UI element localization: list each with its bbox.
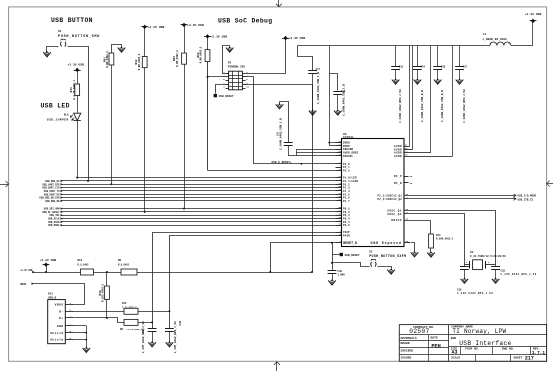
wire S4 right down to P1_1 bus	[68, 47, 89, 181]
wire +3.3V rail	[511, 45, 533, 47]
svg-text:X_32.768K/12.5/20/20/40: X_32.768K/12.5/20/20/40	[470, 254, 506, 258]
svg-text:C_47P_0402_NP0_J_50: C_47P_0402_NP0_J_50	[142, 321, 145, 353]
svg-text:RF_P: RF_P	[394, 175, 402, 178]
wire net PAIP / USB D+	[153, 233, 336, 329]
svg-text:C_33P_0402_NP0_J_50: C_33P_0402_NP0_J_50	[501, 273, 537, 276]
svg-text:USB_ITB_IS: USB_ITB_IS	[518, 198, 534, 201]
wire net USB_UART_CTS	[61, 186, 63, 188]
wire RESET to S3	[333, 263, 370, 267]
wire DGUARD stub	[296, 149, 335, 151]
svg-text:AVDD: AVDD	[394, 155, 402, 158]
svg-text:R_0_0402: R_0_0402	[78, 264, 90, 267]
svg-text:C_33P_0402_NP0_J_50: C_33P_0402_NP0_J_50	[457, 292, 493, 295]
wire P2 pin1 to ground bracket	[223, 46, 230, 74]
ground for GND Exposed pin	[411, 243, 415, 253]
svg-text:R9: R9	[120, 328, 124, 331]
ground under S4	[43, 52, 51, 57]
svg-text:DWG NO.: DWG NO.	[502, 348, 515, 351]
wire AVDD_DREG stub	[296, 152, 335, 154]
wire net USB_DBG_DC	[61, 180, 63, 182]
wire XOSC_Q1 to crystal	[405, 211, 496, 265]
wire R52 down to P0_1 bus	[184, 64, 186, 208]
svg-text:SHEET: SHEET	[513, 356, 522, 359]
svg-text:VBUS: VBUS	[55, 304, 64, 307]
svg-text:+3.3V USB: +3.3V USB	[187, 23, 204, 27]
svg-text:DWG: DWG	[451, 337, 457, 340]
capacitor C33 C_22NF_0402_NP0_J_50	[395, 46, 397, 67]
svg-text:R8: R8	[118, 259, 122, 262]
svg-text:A3: A3	[452, 349, 458, 355]
wire P2 pin3 to R50 column	[208, 76, 226, 78]
svg-text:P0_6: P0_6	[343, 224, 350, 227]
svg-text:D+: D+	[59, 317, 64, 320]
resistor R43 R_2.2K_0402_J	[75, 84, 80, 96]
U3 left pins group DVDD/DGUARD/AVDD_DREG/DCOUPL	[336, 142, 342, 144]
wire AVDD feed 1	[409, 46, 411, 147]
capacitor C34 C_100N_0402_X5R_K_B	[417, 46, 419, 67]
svg-text:R_1K5_0402_G: R_1K5_0402_G	[102, 284, 105, 303]
wire net USB_TDI	[61, 214, 63, 216]
svg-text:R_33_0402_G: R_33_0402_G	[128, 328, 143, 331]
svg-text:DL6: DL6	[64, 113, 69, 116]
wire net USB_I/O_MODE from P2_3/XOSC32_Q1	[404, 195, 516, 197]
wire net USB_MOSI	[61, 224, 63, 226]
title block	[399, 325, 546, 362]
net flag USB_RESET at P2	[214, 94, 217, 97]
svg-text:S4: S4	[58, 30, 62, 33]
svg-text:C_22NF_0402_NP0_J_50: C_22NF_0402_NP0_J_50	[463, 89, 466, 123]
wire D- through R12	[74, 311, 124, 313]
svg-text:USB_E_RESET+: USB_E_RESET+	[272, 161, 292, 164]
wire VBUS rail to R10	[32, 272, 75, 274]
wire AVDD feed 2	[412, 46, 414, 150]
ground above R41	[118, 48, 126, 53]
op-amp U1 -- main SoC U3 CC253x body	[342, 139, 405, 247]
wire AVDD feed 3	[430, 46, 432, 153]
svg-text:DRAWN: DRAWN	[401, 342, 410, 345]
svg-text:PAIN: PAIN	[343, 234, 350, 237]
svg-text:+3.3V USB: +3.3V USB	[67, 62, 84, 66]
wire R50 down to P2_2 pin of U3	[207, 62, 209, 171]
U3 pin RF_N	[404, 182, 409, 184]
capacitor C36 C_33P_0402_NP0_J_50	[464, 265, 466, 267]
svg-text:APPROVALS: APPROVALS	[401, 337, 417, 340]
wire R41 down to P1_2 bus	[111, 65, 113, 184]
svg-text:P2: P2	[228, 62, 232, 65]
svg-text:ISSUED: ISSUED	[401, 357, 412, 360]
svg-text:R12: R12	[122, 302, 127, 305]
wire P2 pin2 to +3.3V	[246, 39, 286, 74]
svg-text:P1_1/LED2: P1_1/LED2	[343, 179, 359, 183]
svg-text:USB_I/O_MODE: USB_I/O_MODE	[518, 194, 537, 198]
svg-text:+3.3V USB: +3.3V USB	[148, 25, 165, 29]
wire net USB_UART_RX	[61, 193, 63, 195]
svg-text:R_NM_0402_G: R_NM_0402_G	[176, 50, 179, 67]
svg-text:C_100N_0402_X5R_1_B: C_100N_0402_X5R_1_B	[317, 72, 320, 104]
svg-text:PINROW_2X5: PINROW_2X5	[228, 66, 246, 69]
svg-text:+3.3V USB: +3.3V USB	[40, 258, 57, 262]
svg-text:USB_MOSI: USB_MOSI	[48, 224, 60, 227]
svg-text:217: 217	[525, 356, 534, 362]
power +3.3V USB for R42	[141, 26, 148, 28]
svg-text:L_BEAD_BZ_0402: L_BEAD_BZ_0402	[483, 38, 508, 41]
svg-text:C38: C38	[501, 270, 506, 273]
U3 pin RF_P	[404, 176, 409, 178]
svg-text:C_100N_0402_X5R_K_B: C_100N_0402_X5R_K_B	[421, 90, 424, 122]
capacitor C17 C_100N_0402_X5R_1_B	[298, 46, 313, 71]
wire net USB_SPI_ARM	[61, 207, 63, 209]
wire RESET_N down leg	[332, 243, 334, 270]
svg-text:RESET_N: RESET_N	[343, 241, 357, 245]
wire P2 pin4 down to P2_0 pin of U3 / net USB_E_RESET	[246, 77, 336, 164]
wire AVDD feed 4	[452, 46, 454, 157]
wire GND and shields to ground	[74, 325, 86, 327]
wire S3 to ground	[378, 267, 392, 270]
wire R42 down to P0_2 bus	[144, 68, 146, 212]
svg-text:+3.3V USB: +3.3V USB	[525, 12, 542, 16]
resistor R52 R_NM_0402_G	[182, 53, 187, 64]
wire DCOUPL to C6	[288, 155, 335, 157]
resistor R9 R_33_0402_G	[124, 319, 138, 325]
wire LED down to P1_0 bus	[77, 120, 79, 177]
ground at P2 pin1	[226, 48, 234, 53]
power +3.3V USB for R52	[181, 24, 188, 26]
svg-text:P12: P12	[48, 293, 53, 296]
ground under R44	[427, 253, 435, 258]
svg-text:R_0_0402: R_0_0402	[118, 264, 130, 267]
svg-text:USB SoC Debug: USB SoC Debug	[218, 18, 272, 25]
svg-text:SCALE: SCALE	[451, 357, 460, 360]
svg-text:RBIAS: RBIAS	[391, 219, 402, 222]
svg-text:C33: C33	[399, 65, 404, 68]
svg-text:R_56K_0402_J: R_56K_0402_J	[436, 237, 454, 240]
resistor R44 R_56K_0402_J	[405, 221, 431, 235]
ground under S3	[387, 270, 395, 275]
ground under C40	[328, 280, 336, 285]
wire R41 top to ground bracket	[112, 45, 122, 53]
svg-text:R_NM_0402_G: R_NM_0402_G	[138, 53, 141, 70]
svg-text:DCOUPL: DCOUPL	[343, 155, 354, 158]
svg-text:PUSH_BUTTON_SMK: PUSH_BUTTON_SMK	[58, 35, 100, 39]
wire P1_0/LED net	[77, 177, 335, 179]
svg-text:USB_DBG_DD: USB_DBG_DD	[45, 200, 60, 203]
svg-text:R10: R10	[78, 259, 83, 262]
svg-text:P1_7: P1_7	[343, 200, 350, 203]
svg-text:R_2.2K_0402_J: R_2.2K_0402_J	[73, 80, 76, 100]
svg-text:C_100N_0402_X5R_1_B: C_100N_0402_X5R_1_B	[342, 84, 345, 116]
wire RESET_N to VBUS rail loop	[271, 243, 336, 273]
ground under P12	[83, 348, 91, 353]
svg-text:USB Interface: USB Interface	[459, 340, 511, 347]
svg-text:+3.3V USB: +3.3V USB	[289, 36, 306, 40]
svg-text:USB_RESET: USB_RESET	[345, 254, 360, 257]
svg-text:C_100N_0402_X5R_1_B: C_100N_0402_X5R_1_B	[280, 118, 283, 150]
svg-text:X2: X2	[470, 251, 474, 254]
wire net USB_UART_TX	[61, 190, 63, 192]
svg-text:C17: C17	[316, 68, 321, 71]
resistor R50 R_NM_0402_G	[205, 50, 210, 62]
capacitor C29 C_47P_0402_NP0_J_50	[148, 328, 157, 330]
svg-text:C_22NF_0402_NP0_J_50: C_22NF_0402_NP0_J_50	[399, 89, 402, 123]
svg-text:CHECKED: CHECKED	[401, 349, 414, 352]
capacitor C30 C_47P_0402_NP0_J_50	[165, 328, 174, 330]
svg-text:Shield: Shield	[50, 331, 64, 335]
capacitor C38 C_33P_0402_NP0_J_50	[495, 265, 497, 267]
wire D+ through R9	[75, 318, 125, 323]
wire P2 pin8 down around U3 to VBUS rail	[246, 85, 313, 273]
svg-text:DATE: DATE	[431, 337, 438, 340]
power +3.3V USB above P2	[282, 38, 289, 40]
svg-text:C30: C30	[179, 320, 182, 325]
resistor R42 R_NM_0402_G	[142, 57, 147, 68]
svg-text:FSCM NO.: FSCM NO.	[465, 348, 480, 351]
svg-text:+3.3V USB: +3.3V USB	[211, 35, 228, 39]
wire DVDD pins to +3.3V drop	[329, 142, 335, 144]
svg-text:L4: L4	[483, 33, 487, 36]
wire net USB_DBG_DD	[61, 200, 63, 202]
wire XOSC_Q2 to crystal	[405, 214, 465, 265]
capacitor C40 1_NM0	[328, 270, 337, 272]
svg-text:USB BUTTON: USB BUTTON	[51, 17, 93, 24]
svg-text:02507: 02507	[409, 328, 429, 335]
wire net PAIN / USB D-	[170, 236, 336, 329]
svg-text:C_47P_0402_NP0_J_50: C_47P_0402_NP0_J_50	[174, 321, 177, 353]
power +3.3V USB for R50	[204, 36, 211, 38]
svg-text:C37: C37	[463, 65, 468, 68]
capacitor C19 C_100N_0402_X5R_1_B	[329, 46, 331, 143]
svg-text:C34: C34	[420, 65, 425, 68]
svg-text:CC253x: CC253x	[343, 136, 354, 139]
svg-text:P2_4/XOSC32_Q2: P2_4/XOSC32_Q2	[377, 197, 402, 201]
svg-text:+3.3V USB: +3.3V USB	[20, 269, 33, 272]
wire net USB_SCLK	[61, 217, 63, 219]
ground for C6	[279, 102, 281, 105]
svg-text:Shield: Shield	[50, 338, 64, 342]
svg-text:USB_JUMPER: USB_JUMPER	[47, 119, 69, 122]
svg-text:1_NM0: 1_NM0	[338, 273, 346, 276]
svg-text:XOSC_Q2: XOSC_Q2	[387, 213, 402, 216]
capacitor C35 C_100N_0402_X5R_K_B	[437, 46, 439, 67]
svg-text:TI Norway, LPW: TI Norway, LPW	[452, 328, 506, 335]
wire net USB_DBG_DD_DIR	[61, 196, 63, 198]
svg-text:PUSH_BUTTON_SXFM: PUSH_BUTTON_SXFM	[369, 254, 406, 258]
svg-text:USB_B: USB_B	[48, 296, 56, 299]
wire VBUS to P12	[32, 284, 85, 305]
svg-text:R_NM_0402_G: R_NM_0402_G	[106, 51, 109, 68]
wire P2 pin7 down to USB_RESET flag	[216, 85, 226, 94]
svg-text:C_100N_0402_X5R_K_B: C_100N_0402_X5R_K_B	[441, 90, 444, 122]
svg-text:R_NM_0402_G: R_NM_0402_G	[200, 46, 203, 63]
wire net USB_UART_RTS	[61, 183, 63, 185]
svg-text:PEH: PEH	[431, 343, 440, 349]
svg-text:P2_2: P2_2	[343, 169, 350, 172]
capacitor C6 C_100N_0402_X5R_1_B	[280, 102, 289, 143]
svg-text:GND Exposed: GND Exposed	[371, 241, 402, 245]
resistor R40 R_1K5_0402_G	[106, 272, 108, 286]
U3 pin RESET_N	[336, 242, 342, 244]
svg-text:D-: D-	[59, 310, 64, 313]
resistor R41 R_NM_0402_G	[109, 53, 114, 65]
svg-text:C35: C35	[441, 65, 446, 68]
wire R43 to LED	[77, 96, 79, 113]
net flag USB_RESET at RESET_N	[332, 254, 340, 256]
svg-text:VBUS: VBUS	[20, 283, 27, 286]
wire net USB_DL_RESET	[61, 211, 63, 213]
wire net USB_MISO	[61, 221, 63, 223]
wire net USB_ITB_IS from P2_4/XOSC32_Q2	[404, 198, 516, 200]
capacitor C37 C_22NF_0402_NP0_J_50	[459, 46, 461, 67]
svg-text:GND: GND	[57, 325, 64, 328]
wire R8 to debug loop	[137, 272, 312, 274]
svg-text:USB_RESET: USB_RESET	[219, 95, 234, 98]
wire S4 left to ground	[47, 47, 59, 53]
svg-text:RF_N: RF_N	[394, 182, 402, 185]
svg-text:USB LED: USB LED	[41, 103, 70, 110]
